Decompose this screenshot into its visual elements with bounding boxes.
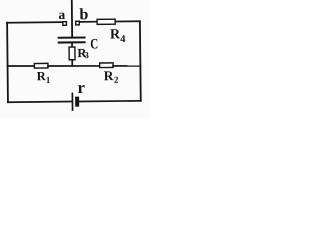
wire bottom right segment (battery to right rail)	[79, 100, 141, 103]
svg-text:r: r	[77, 78, 85, 97]
wire from R4 to top-right corner	[116, 20, 140, 22]
svg-text:3: 3	[84, 50, 89, 60]
wire middle right segment (R2 to right rail)	[113, 65, 140, 68]
node a (square terminal)	[63, 22, 67, 26]
capacitor C top plate	[58, 36, 86, 38]
svg-text:b: b	[79, 6, 88, 23]
battery short thick plate (negative)	[75, 97, 79, 107]
wire top-left segment (top wire from left corner to node a)	[7, 21, 61, 24]
wire left side vertical	[6, 23, 9, 102]
resistor R4 (box)	[97, 19, 115, 24]
wire middle segment R1 to R2 (through R3 junction)	[48, 65, 100, 66]
svg-text:2: 2	[114, 75, 119, 85]
resistor R3 (vertical box)	[69, 47, 75, 60]
resistor R1 (box)	[34, 63, 48, 68]
svg-text:a: a	[58, 7, 65, 22]
wire from node b to R4	[80, 21, 97, 23]
resistor R2 (box)	[100, 63, 113, 68]
svg-text:C: C	[90, 36, 98, 52]
svg-text:R: R	[104, 68, 114, 83]
wire vertical lead from top edge to capacitor	[71, 0, 73, 37]
wire R3 to middle wire	[71, 60, 73, 66]
wire middle left segment (left rail to R1)	[8, 65, 35, 68]
battery long plate (positive)	[71, 94, 73, 110]
capacitor C bottom plate	[58, 41, 86, 43]
svg-text:4: 4	[120, 34, 126, 45]
node b (square terminal)	[76, 21, 80, 25]
wire capacitor bottom plate to R3	[71, 43, 73, 47]
wire right side vertical	[139, 21, 142, 101]
svg-text:1: 1	[46, 75, 51, 85]
wire bottom left segment (left rail to battery)	[8, 101, 72, 104]
